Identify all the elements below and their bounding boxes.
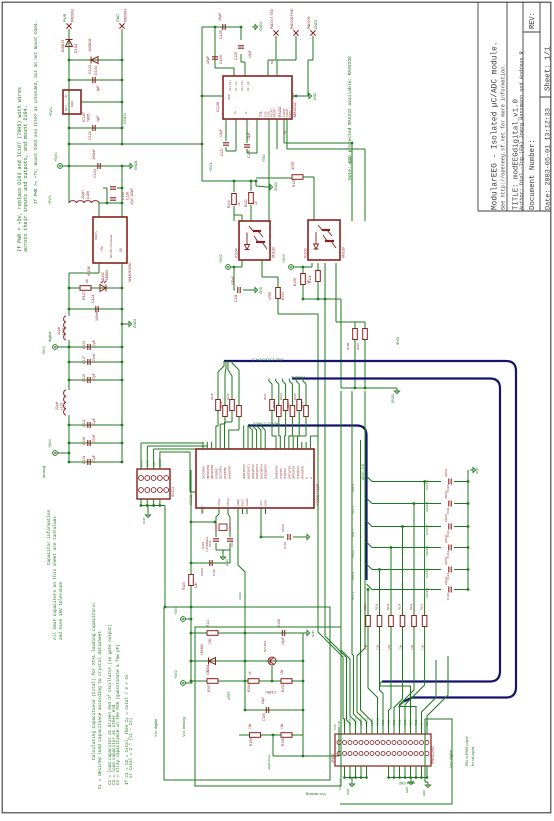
svg-text:TTL: TTL [259, 111, 263, 117]
capacitor C121 100nF [96, 306, 98, 312]
svg-text:IC108: IC108 [87, 266, 91, 276]
JP102 pin circle top col8 [376, 741, 380, 745]
wire IC103 pin down right [335, 263, 337, 322]
svg-text:R118: R118 [308, 275, 312, 283]
svg-text:XTAL2: XTAL2 [226, 498, 230, 506]
svg-text:VCC: VCC [227, 94, 231, 100]
svg-text:C2-: C2- [246, 81, 250, 85]
diode D103 1N5819 [66, 40, 73, 47]
svg-text:PINHD-2X17: PINHD-2X17 [431, 745, 435, 764]
svg-text:(AIN1)PD7: (AIN1)PD7 [227, 465, 231, 479]
svg-text:SV101: SV101 [171, 487, 175, 497]
wire right pin col17 from upper right [427, 656, 448, 734]
wire R105 R106 row [239, 734, 303, 736]
svg-text:15k: 15k [280, 669, 284, 675]
wire D101 row [191, 660, 303, 662]
ISP pin circle bottom 1 [139, 488, 144, 493]
svg-text:1N5818: 1N5818 [88, 39, 92, 52]
svg-text:C111: C111 [446, 507, 450, 514]
wire AREF down to reference [238, 514, 245, 633]
resistor R104 1k [248, 679, 259, 684]
svg-text:X: X [309, 477, 313, 479]
svg-text:C108: C108 [277, 619, 281, 627]
diode D104 1N5818 [91, 57, 98, 64]
wire IC103 pin1 down [311, 263, 313, 267]
svg-text:V+: V+ [233, 110, 237, 114]
wire PB pin 4th to bus [229, 430, 239, 442]
svg-text:NMA0505SC: NMA0505SC [128, 262, 132, 282]
resistor R118 22R series [216, 400, 221, 411]
wire 2.0V net to connector [272, 735, 274, 756]
JP102 pin circle bottom col4 [354, 752, 358, 756]
svg-text:GND1: GND1 [122, 112, 127, 124]
svg-text:R121: R121 [244, 199, 248, 207]
svg-text:L101: L101 [60, 402, 64, 410]
svg-text:PB0..2,PD2,PD4..5: PB0..2,PD2,PD4..5 [252, 358, 283, 362]
svg-text:220nF: 220nF [444, 576, 448, 585]
wire gnd rail to DCDC [121, 166, 123, 203]
svg-text:7,5k: 7,5k [376, 644, 380, 650]
capacitor C105 10uF [266, 707, 268, 713]
wire rail seg [68, 144, 70, 166]
svg-text:Vcc analog: Vcc analog [181, 717, 186, 737]
svg-text:VCC1: VCC1 [351, 506, 355, 514]
svg-text:R116: R116 [375, 603, 379, 610]
JP102 pin circle top col16 [420, 741, 424, 745]
JP102 pin circle bottom col7 [370, 752, 374, 756]
svg-text:or Cxtal = 2 * (CL - Cs): or Cxtal = 2 * (CL - Cs) [129, 718, 134, 778]
svg-text:1µF: 1µF [96, 85, 100, 92]
wire R127 LED row [69, 287, 122, 289]
wire C116 row [69, 442, 122, 444]
ISP pin circle bottom 2 [145, 488, 150, 493]
svg-text:1k: 1k [248, 671, 252, 675]
capacitor C115 47µF [88, 377, 90, 383]
capacitor C124 100nF [98, 163, 100, 169]
svg-text:GND3: GND3 [314, 19, 318, 29]
JP102 pin circle top col15 [414, 741, 418, 745]
svg-text:10µF: 10µF [92, 340, 96, 348]
svg-text:R1IN: R1IN [288, 111, 292, 117]
resistor R106 10k [281, 733, 292, 738]
svg-text:7,5k: 7,5k [399, 644, 403, 650]
wire net down to connector 5 [357, 391, 367, 734]
svg-text:1k: 1k [85, 279, 89, 283]
wire bottom gnd row to ISP vertical [165, 606, 211, 608]
wires taps to 7.5k resistors [367, 590, 369, 616]
svg-text:C122: C122 [88, 131, 92, 140]
capacitor C104 100nF [288, 534, 290, 540]
wires DC-DC outputs down [98, 263, 100, 273]
svg-text:R123: R123 [279, 393, 283, 400]
wire ISP MOSI to MCU PB3 [141, 442, 203, 444]
svg-text:RESET: RESET [158, 458, 162, 467]
svg-text:5V1-BZX: 5V1-BZX [263, 641, 267, 652]
resistor R108 3k3 [353, 329, 358, 340]
svg-text:7,5k: 7,5k [387, 644, 391, 650]
svg-text:+5V: +5V [100, 245, 104, 252]
svg-text:C120: C120 [121, 192, 125, 200]
svg-text:OUT: OUT [64, 105, 68, 111]
svg-text:C102: C102 [230, 540, 234, 547]
wire TXD pad down to MAX232 [275, 36, 277, 60]
capacitor C101 xtal [215, 532, 217, 538]
wire rail to L105 [68, 166, 70, 203]
mcu top pin stubs [202, 442, 204, 449]
JP102 pin circle top col9 [381, 741, 385, 745]
JP102 pin circle bottom col6 [365, 752, 369, 756]
svg-text:R118: R118 [210, 393, 214, 400]
wire UREF vertical v2 [244, 572, 246, 633]
capacitor C120 100nF dcdc input [106, 188, 108, 203]
svg-text:470R: 470R [291, 161, 295, 170]
svg-text:PAD007 TXD: PAD007 TXD [270, 8, 274, 29]
wire IC104 output to R124 [261, 260, 263, 277]
svg-text:1N5819: 1N5819 [61, 40, 65, 53]
ISP wires up [140, 452, 142, 469]
ground GND2 arrow [122, 323, 126, 325]
wire C105 row [245, 709, 303, 711]
capacitor C117 100nF [88, 359, 90, 365]
resistor R105 10k [250, 733, 261, 738]
capacitor C122 1uF [93, 125, 95, 131]
ISP pin circle top 2 [145, 476, 150, 481]
resistor R110 3k3 [363, 329, 368, 340]
wire IC103 output row [303, 298, 341, 300]
ground AVCC rail top [470, 467, 476, 472]
svg-text:PAD002: PAD002 [71, 9, 75, 22]
svg-text:10µF: 10µF [247, 132, 251, 140]
svg-text:VCC3: VCC3 [351, 592, 355, 600]
wire RXD net vertical [324, 299, 326, 442]
pad PAD008 RXD [293, 30, 298, 35]
resistor R111 100 [207, 631, 218, 636]
wire R116 bottom to connector [400, 630, 415, 734]
svg-text:47µF 100nF: 47µF 100nF [130, 188, 134, 205]
pad digital supply [53, 345, 58, 350]
svg-text:VCC: VCC [259, 500, 263, 506]
svg-text:+5V/1: +5V/1 [209, 163, 213, 173]
JP102 pin circle top col4 [354, 741, 358, 745]
regulator IC107 7805 [63, 90, 81, 114]
resistor R125 22R series pdc [297, 400, 302, 411]
wire T1OUT down to opto section [268, 119, 270, 221]
svg-text:ADC0..5,D: ADC0..5,D [361, 463, 365, 480]
svg-text:D103: D103 [74, 44, 78, 53]
svg-text:PAD004: PAD004 [124, 9, 128, 22]
pad PAD004 GND input [119, 23, 124, 28]
pad PAD009 GND3 [310, 30, 315, 35]
supply +5V/2 pad [226, 265, 231, 270]
svg-text:GND8: GND8 [134, 160, 138, 170]
ISP pin circle bottom 3 [151, 488, 156, 493]
wire R115 bottom to connector [394, 630, 403, 734]
svg-text:C104: C104 [283, 541, 287, 549]
svg-text:PAD008 RXD: PAD008 RXD [290, 8, 294, 29]
svg-text:Capacitor information: Capacitor information [47, 509, 52, 565]
crystal Q101 7.3728MHz [216, 523, 230, 532]
JP102 pin circle bottom col8 [376, 752, 380, 756]
svg-text:AVCC1: AVCC1 [425, 568, 429, 578]
wire R124 down to TXD net vertical [277, 299, 279, 315]
wire AVCC right rail [467, 470, 469, 590]
svg-text:MOSI: MOSI [139, 460, 143, 467]
svg-text:UREF: UREF [238, 592, 242, 600]
wire +5V1 horizontal into R119 R121 node [202, 180, 256, 182]
svg-text:R106: R106 [281, 738, 285, 746]
wire AVCC tap AGND1 [367, 584, 442, 590]
wire R117 bottom to connector [405, 630, 425, 734]
svg-text:C110: C110 [212, 569, 216, 576]
svg-text:GND0: GND0 [274, 182, 278, 191]
svg-text:100nF: 100nF [281, 523, 285, 532]
svg-text:L102: L102 [62, 327, 66, 335]
JP102 pin circle top col7 [370, 741, 374, 745]
svg-text:C126: C126 [126, 192, 130, 200]
JP102 pin circle top col12 [398, 741, 402, 745]
wire left rail below L101 [68, 415, 70, 462]
svg-text:2,49BU: 2,49BU [265, 690, 276, 694]
capacitor 220nF AVCC3 [449, 524, 451, 530]
wire R111 row [191, 632, 245, 634]
svg-text:Author: Dipl.-Ing.(FH) Joerg H: Author: Dipl.-Ing.(FH) Joerg Hansmann an… [519, 51, 525, 210]
wire XTAL2 down [228, 514, 230, 523]
JP102 pin circle top col13 [403, 741, 407, 745]
resistor R107 470 [207, 679, 218, 684]
wires MCU right pins up [309, 436, 311, 442]
mcu IC102 AT90S4433P [196, 449, 314, 508]
svg-text:7,5k: 7,5k [421, 644, 425, 650]
svg-text:47µF: 47µF [92, 373, 96, 381]
wire V- branch C129 [240, 27, 242, 40]
wire from outer bus end to connector [399, 702, 416, 735]
JP102 pin circle top col11 [392, 741, 396, 745]
svg-text:digital: digital [47, 331, 52, 342]
svg-text:10k: 10k [248, 723, 252, 729]
wire RXD pad down to MAX232 [295, 36, 297, 60]
bus PB0..2 PD4..5 outer blue [224, 361, 516, 702]
wire ISP vertical down [164, 506, 166, 608]
svg-text:10µF: 10µF [206, 55, 210, 64]
svg-text:R125: R125 [292, 179, 296, 187]
resistor R114 7.5k [389, 616, 394, 627]
svg-text:220nF: 220nF [444, 490, 448, 499]
bus ADC0..5 blue [248, 426, 367, 581]
wire into DC-DC converter [98, 203, 100, 217]
svg-text:C113: C113 [82, 341, 86, 349]
svg-text:C1-: C1- [234, 81, 238, 85]
connector JP102 PINHD-2X17 [335, 734, 431, 766]
pad PAD007 TXD [273, 30, 278, 35]
capacitor C132 100nF decoupling [233, 267, 235, 290]
optocoupler IC104 6N139 [239, 221, 270, 260]
capacitor 220nF AVCC1 [449, 567, 451, 573]
svg-text:All 10uF capacitors on this sh: All 10uF capacitors on this sheet are ta… [53, 516, 58, 640]
svg-text:C1+: C1+ [228, 80, 232, 85]
svg-text:AREF: AREF [236, 499, 240, 506]
diode D101 1N5819 [209, 658, 216, 665]
svg-text:10µF: 10µF [218, 12, 222, 21]
svg-text:220nF: 220nF [444, 556, 448, 565]
JP102 pin circle bottom col13 [403, 752, 407, 756]
svg-text:R107: R107 [207, 684, 211, 692]
svg-text:100nF: 100nF [92, 149, 96, 160]
capacitor 220nF AGND5 [449, 501, 451, 507]
svg-text:PWR: PWR [63, 13, 67, 22]
svg-text:ModularEEG - Isolated µC/ADC m: ModularEEG - Isolated µC/ADC module. [492, 42, 500, 210]
wire C114 row [69, 461, 122, 463]
svg-text:1N5819: 1N5819 [200, 644, 204, 655]
svg-text:ADC0..5, AREF: ADC0..5, AREF [252, 422, 278, 426]
svg-text:C131: C131 [234, 294, 238, 302]
inductor L101 22uH [64, 390, 66, 415]
connector SV101 ISP header [137, 469, 170, 499]
svg-text:+5V/1: +5V/1 [54, 152, 58, 162]
capacitor C110 100nF [210, 560, 212, 566]
wire analog pad to rail [58, 452, 70, 454]
svg-text:22µH: 22µH [57, 326, 61, 335]
resistor R120 1k [317, 263, 319, 270]
svg-text:R119: R119 [227, 200, 231, 208]
wire xtal gnd row [216, 549, 230, 551]
wire digital pad to rail [58, 346, 70, 348]
svg-text:VOUT+: VOUT+ [94, 230, 98, 240]
resistor R115 7.5k [400, 616, 405, 627]
svg-text:Date: 2003-05-01 13:12:33: Date: 2003-05-01 13:12:33 [545, 108, 553, 210]
wire RXD right vertical [364, 149, 366, 221]
resistor R117b 22R series 4th [237, 406, 242, 417]
JP102 pin circle bottom col9 [381, 752, 385, 756]
svg-text:100nF: 100nF [92, 434, 96, 444]
ground GND right of MAX232 [292, 95, 306, 97]
svg-text:100nF: 100nF [231, 276, 235, 285]
svg-text:for cal-signal: for cal-signal [471, 747, 475, 766]
pad analog supply [53, 451, 58, 456]
svg-text:GND: GND [259, 286, 263, 294]
svg-text:JP102: JP102 [331, 754, 335, 763]
capacitor 220nF AGND3 [449, 545, 451, 551]
svg-text:2,0V: 2,0V [333, 724, 337, 730]
wire IC103 RXD output down [324, 263, 326, 299]
wire C115 row [69, 379, 122, 381]
svg-text:6N139: 6N139 [342, 247, 346, 258]
wire C122 row [69, 127, 122, 129]
svg-text:C114: C114 [82, 456, 86, 464]
resistor R119 22R series [223, 406, 228, 417]
region box Vcc digital outer-left [164, 607, 330, 780]
JP102 pin circle top col10 [387, 741, 391, 745]
svg-text:DC-DC Converter: DC-DC Converter [109, 234, 113, 258]
wire R113 bottom to connector [380, 630, 384, 734]
svg-text:Vcc digital: Vcc digital [153, 719, 158, 737]
JP102 pin circle bottom col11 [392, 752, 396, 756]
JP102 top pin wires and labels [338, 727, 340, 734]
ISP pin circle bottom 5 [164, 488, 169, 493]
svg-text:IN: IN [64, 95, 68, 98]
svg-text:C116: C116 [82, 437, 86, 445]
svg-text:C129: C129 [234, 52, 238, 60]
svg-text:22µH: 22µH [55, 401, 59, 410]
ground analog under connector [349, 781, 354, 787]
wire digital gnd bus under connector [389, 777, 428, 779]
svg-text:GND: GND [405, 787, 409, 793]
capacitor C125 10uF [223, 24, 225, 30]
svg-text:(ADC5)PC5: (ADC5)PC5 [264, 464, 268, 479]
wire AVCC tap AVCC3 [367, 521, 442, 527]
svg-text:C127: C127 [220, 148, 224, 156]
supply +5V/3 pad lower [181, 617, 186, 622]
wire to gnd row [340, 299, 342, 388]
capacitor 220nF AGND1 [449, 587, 451, 593]
wire C110 row [191, 562, 230, 564]
wire from middle bus end to connector [380, 682, 411, 735]
JP102 pin circle bottom col1 [337, 752, 341, 756]
svg-text:100nF: 100nF [92, 353, 96, 363]
svg-text:Vcc analog: Vcc analog [306, 792, 326, 797]
resistor R102 15k [281, 679, 292, 684]
resistor R121 22R series pdc [270, 400, 275, 411]
resistor R116 7.5k [412, 616, 417, 627]
svg-text:LED08: LED08 [105, 270, 109, 280]
svg-text:See http://openeeg.sf.net for: See http://openeeg.sf.net for more infor… [501, 64, 507, 210]
svg-text:R121: R121 [263, 393, 267, 400]
bus PDC0..5 middle blue [292, 379, 500, 682]
ground GND1 top [252, 24, 258, 29]
svg-text:V-: V- [244, 111, 248, 114]
svg-text:CL = desired load capacitance: CL = desired load capacitance according … [98, 631, 103, 789]
svg-text:C2-: C2- [246, 87, 250, 91]
resistor R123 22R series pdc [283, 400, 288, 411]
svg-text:GND0: GND0 [391, 394, 395, 403]
svg-text:220nF: 220nF [444, 468, 448, 477]
wire R125 to opto IC103 [313, 177, 315, 221]
resistor R112 7.5k [366, 616, 371, 627]
JP102 pin circle top col5 [359, 741, 363, 745]
svg-text:C105: C105 [262, 713, 266, 721]
svg-text:GND: GND [264, 500, 268, 506]
resistor R117 7.5k [422, 616, 427, 627]
svg-text:10k: 10k [280, 723, 284, 729]
svg-text:+5V/4: +5V/4 [48, 439, 52, 448]
wire +5V1 net down to connector [341, 391, 356, 734]
svg-text:GND2: GND2 [133, 318, 137, 328]
ISP wires down to gnd [140, 499, 142, 506]
svg-text:AGND5: AGND5 [425, 501, 429, 512]
wire PWR input rail left [68, 29, 70, 144]
svg-text:AGND1: AGND1 [425, 587, 429, 598]
svg-text:GND: GND [70, 101, 74, 107]
wires MCU ADC pins to ADC bus [243, 426, 245, 443]
resistor R121 1k pullup [250, 181, 252, 191]
resistor R120 22R series [230, 400, 235, 411]
JP102 pin circle top col6 [365, 741, 369, 745]
svg-text:R105: R105 [249, 738, 253, 746]
wire +5V1 down-feed from rail [201, 144, 203, 181]
resistor R124 470R [276, 288, 281, 299]
svg-text:R2OUT: R2OUT [273, 108, 277, 117]
pad PAD002 PWR input [66, 23, 71, 28]
svg-text:If PWR >= +7V, mount D103 and: If PWR >= +7V, mount D103 and IC107 as i… [34, 21, 39, 204]
JP102 pin circle bottom col16 [420, 752, 424, 756]
svg-text:C123: C123 [88, 65, 92, 74]
svg-text:C124: C124 [93, 169, 97, 178]
svg-text:R126: R126 [300, 401, 304, 408]
wire AVCC tap AVCC1 [367, 564, 442, 570]
svg-text:470R: 470R [268, 291, 272, 300]
wire node after D103 to D104 [69, 59, 122, 61]
wire C123 row [69, 79, 122, 81]
svg-text:PB1 is PWM output: PB1 is PWM output [465, 737, 469, 766]
